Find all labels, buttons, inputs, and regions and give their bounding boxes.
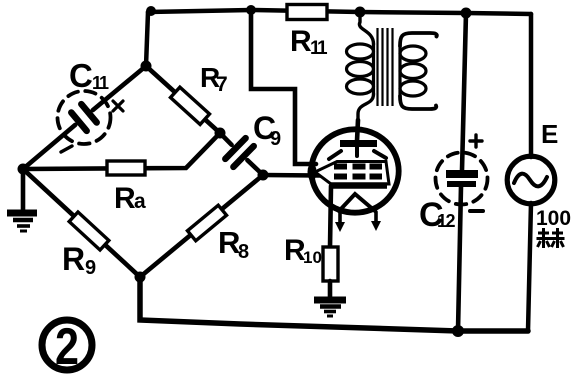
transformer T secondary spine bbox=[398, 46, 401, 96]
transformer T secondary loop 1 bbox=[400, 46, 426, 61]
label Hz (Chinese character He, drawn as strokes) bbox=[537, 228, 565, 248]
svg-text:9: 9 bbox=[85, 257, 96, 279]
node E (bottom bridge corner) bbox=[135, 272, 146, 283]
svg-text:2: 2 bbox=[55, 318, 79, 376]
resistor R8 body bbox=[187, 205, 226, 241]
svg-text:R: R bbox=[114, 182, 136, 215]
AC source E sine bbox=[514, 174, 547, 187]
transformer T primary bottom hook to plate lead bbox=[358, 94, 374, 120]
wire: cathode lead to R10 bbox=[330, 186, 331, 247]
figure number circled 2 bbox=[42, 320, 92, 370]
AC source E circle bbox=[507, 156, 555, 204]
tube V1 heater lead arrow right bbox=[374, 212, 378, 222]
svg-text:100: 100 bbox=[536, 207, 571, 230]
capacitor C11 plates bbox=[71, 104, 96, 131]
tube V1 plate lead stub bbox=[355, 147, 359, 156]
tube V1 cathode bar bbox=[331, 182, 387, 189]
tube V1 grid box bbox=[315, 162, 389, 185]
C11 polarity mark minus bbox=[61, 146, 72, 152]
svg-text:R: R bbox=[290, 25, 312, 58]
wire: node B to node E through R9 bbox=[23, 169, 140, 277]
node B (left bridge corner) bbox=[18, 164, 29, 175]
svg-text:11: 11 bbox=[310, 38, 328, 59]
tube V1 heater filament bbox=[339, 194, 375, 211]
ground symbol under R10 bbox=[314, 300, 346, 316]
transformer T secondary loop 2 bbox=[400, 64, 426, 79]
node A (bridge apex junction) bbox=[141, 61, 152, 72]
svg-text:E: E bbox=[541, 119, 558, 149]
resistor Ra body bbox=[107, 161, 145, 175]
transformer T secondary loop 3 bbox=[400, 81, 426, 96]
capacitor C11 dashed circle bbox=[58, 91, 111, 144]
wire: top bus junction to tube grid (screen feed) bbox=[251, 10, 316, 164]
resistor R10 body bbox=[323, 247, 338, 281]
transformer T primary loop 3 bbox=[347, 79, 374, 94]
resistor R9 body bbox=[69, 212, 109, 250]
tube V1 grid tick left bbox=[329, 151, 341, 159]
tube V1 plate bar bbox=[340, 140, 377, 147]
wire: C11 lower plate to node B bbox=[23, 125, 75, 169]
C11 polarity mark x bbox=[113, 101, 123, 111]
wire: node B down to ground bbox=[21, 169, 26, 211]
transformer T secondary bottom lead bbox=[400, 96, 436, 109]
transformer T primary loop 2 bbox=[347, 62, 374, 77]
wire: left riser (top bus down to bridge apex) bbox=[146, 12, 148, 66]
svg-text:9: 9 bbox=[270, 128, 281, 150]
svg-text:8: 8 bbox=[238, 241, 249, 263]
wire: plate lead into tube bbox=[357, 120, 358, 141]
capacitor C12 dashed circle bbox=[436, 153, 488, 205]
junction top-left corner dot bbox=[146, 6, 156, 16]
wire: source E to bottom bus bbox=[528, 203, 531, 331]
tube V1 grid entry blob bbox=[308, 163, 317, 181]
svg-text:11: 11 bbox=[92, 73, 109, 93]
svg-text:7: 7 bbox=[216, 73, 228, 96]
wire: top bus down to source E bbox=[529, 14, 534, 157]
wire: node A to C11 upper plate bbox=[93, 66, 146, 110]
wire: top bus from left riser to right branch bbox=[148, 10, 531, 14]
C12 polarity minus bbox=[470, 209, 483, 213]
wire: node E down and bottom bus to right corner bbox=[140, 277, 528, 331]
resistor R7 body bbox=[170, 87, 209, 124]
resistor R11 body bbox=[287, 5, 327, 20]
wire: node C to C9 upper plate bbox=[220, 133, 232, 145]
transformer T primary loop 1 bbox=[347, 44, 374, 59]
tube V1 grid dashes bbox=[334, 164, 382, 180]
transformer T secondary top lead bbox=[400, 33, 437, 46]
wire: C9 lower plate to node D bbox=[247, 160, 263, 175]
capacitor C12 plates bbox=[446, 174, 478, 184]
ground symbol left bbox=[7, 213, 37, 231]
transformer T core lines bbox=[378, 28, 393, 106]
svg-text:a: a bbox=[134, 190, 146, 213]
svg-text:R: R bbox=[62, 241, 85, 277]
wire: node D to tube grid bbox=[263, 173, 320, 178]
junction on top bus at transformer primary bbox=[355, 7, 366, 18]
wire: node B to Ra to node C bbox=[23, 133, 220, 169]
transformer T primary spine bbox=[372, 44, 375, 94]
junction on top bus at C12 branch bbox=[461, 8, 472, 19]
capacitor C9 plates bbox=[225, 138, 253, 167]
wire: R10 to ground bbox=[328, 281, 333, 299]
tube V1 grid tick right bbox=[374, 151, 386, 158]
node C (R7 / C9 junction) bbox=[215, 128, 226, 139]
transformer T primary hook from top bus bbox=[359, 12, 373, 44]
junction bottom at C12 branch bbox=[452, 325, 464, 337]
tube V1 heater lead arrow left bbox=[338, 213, 342, 223]
junction on top bus left of R11 bbox=[246, 5, 256, 15]
vacuum tube V1 envelope bbox=[311, 129, 398, 212]
wire: C12 branch vertical bbox=[458, 13, 466, 331]
wire: node A to node C through R7 bbox=[146, 66, 220, 133]
svg-text:C: C bbox=[69, 57, 93, 94]
svg-text:10: 10 bbox=[303, 248, 322, 267]
node D (C9 / R8 / grid junction) bbox=[258, 170, 269, 181]
wire: node D to node E through R8 bbox=[140, 175, 263, 277]
C12 polarity plus bbox=[470, 135, 482, 147]
svg-text:12: 12 bbox=[437, 211, 456, 231]
